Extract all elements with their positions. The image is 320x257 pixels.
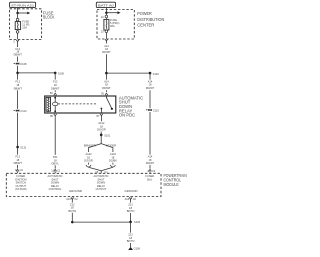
wire label F12 18 DB/WT (fuse block output): [14, 47, 23, 57]
svg-text:(ST-RUN): (ST-RUN): [15, 187, 27, 191]
svg-text:OUTPUT: OUTPUT: [96, 187, 107, 191]
svg-text:RD/WT: RD/WT: [102, 50, 111, 54]
pin 85 exit from relay: [50, 113, 56, 118]
pin 2 entry to PCM C2: [147, 165, 156, 173]
svg-text:C2: C2: [74, 197, 78, 201]
svg-text:DB/YL: DB/YL: [51, 161, 59, 165]
wire label Z12 18 BK/TN (left ground): [68, 202, 76, 212]
node junction at fuse block feed: [16, 12, 19, 15]
powertrain control module label: [164, 173, 187, 187]
wire S101 down to split: [100, 135, 102, 144]
wire S106 to ground: [130, 222, 132, 233]
svg-text:S120: S120: [153, 72, 160, 76]
connector arc left branch: [86, 163, 91, 167]
connector C108: [14, 62, 27, 66]
power distribution center dashed enclosure: [97, 10, 134, 40]
wire to PDC edge: [105, 33, 107, 39]
splice S131: [16, 145, 27, 149]
svg-text:A14: A14: [104, 79, 109, 83]
svg-text:S106: S106: [134, 220, 141, 224]
wire label F12 18 DB/WT (left branch): [14, 73, 23, 91]
svg-text:S101: S101: [104, 133, 111, 137]
svg-text:DB/WT: DB/WT: [14, 52, 23, 56]
wire label Z12 18 BK/TN (to ground): [127, 233, 135, 243]
wire relay 85 to PCM: [54, 117, 56, 154]
svg-text:C110: C110: [153, 108, 160, 112]
node ST-RUN A21 feed box: [10, 2, 36, 7]
svg-text:RD/WT: RD/WT: [146, 161, 155, 165]
relay switch contacts: [101, 96, 114, 113]
wire S120 down right column: [149, 73, 151, 80]
svg-text:30A: 30A: [110, 24, 115, 28]
wire label A14 18 RD/WT (PDC output): [102, 44, 111, 54]
svg-text:A16: A16: [125, 197, 130, 201]
fuse block dashed enclosure: [10, 9, 42, 40]
ground G106: [128, 247, 140, 251]
fuse 11 value label: [22, 20, 29, 30]
wire relay 87 to S101: [100, 117, 102, 121]
wire C110 to PCM: [149, 112, 151, 155]
wire from ST-RUN A21 to fuse 11: [17, 8, 19, 13]
svg-text:RD/WT: RD/WT: [146, 86, 155, 90]
relay coil: [46, 97, 50, 112]
wire label A142 18 DG/BK (right branch): [109, 148, 117, 162]
svg-text:BRN/GER: BRN/GER: [84, 144, 96, 148]
svg-text:B(+): B(+): [147, 177, 152, 181]
svg-text:CENTER: CENTER: [137, 23, 154, 28]
svg-text:ST-RUN A21: ST-RUN A21: [11, 4, 35, 8]
svg-text:DB/WT: DB/WT: [14, 161, 23, 165]
svg-text:DG/OR: DG/OR: [97, 127, 106, 131]
svg-text:MODULE: MODULE: [164, 182, 179, 187]
wire fuse top stub: [17, 20, 19, 23]
node BATT A0 feed box: [96, 2, 115, 7]
svg-text:BATT A0: BATT A0: [98, 4, 115, 8]
svg-text:C2: C2: [133, 197, 137, 201]
fuse F5 body: [104, 18, 109, 30]
wire from BATT A0: [105, 8, 107, 13]
node junction left: [16, 72, 19, 75]
wire label A14 18 RD/WT (right column): [146, 79, 155, 90]
wire label K51 18 DB/YL: [51, 155, 59, 165]
splice S100: [54, 72, 65, 76]
wire C108 to splice S100: [17, 66, 19, 73]
svg-text:A14: A14: [148, 79, 153, 83]
splice S106: [129, 220, 140, 224]
wire link to S100: [18, 72, 56, 74]
wire split to branches: [89, 144, 102, 149]
svg-text:DISTRIBUTION: DISTRIBUTION: [137, 17, 164, 22]
wire label Z12 18 BK/TN (right ground): [127, 203, 135, 213]
splice S120: [149, 72, 160, 76]
relay K1 automatic shut down relay box: [45, 96, 116, 113]
wire col1 down from S100 junction: [17, 90, 19, 109]
node junction at PDC feed: [105, 11, 108, 14]
svg-text:C1: C1: [57, 169, 61, 173]
connector C113: [14, 109, 27, 113]
svg-text:C2: C2: [152, 169, 156, 173]
power distribution center label: [137, 11, 164, 28]
svg-text:WT/GER: WT/GER: [106, 144, 117, 148]
PCM terminal label: fused B(+): [145, 174, 154, 181]
connector C110: [146, 108, 159, 112]
terminal circle pin 14: [101, 15, 108, 19]
PCM terminal label: fused ignition switch output: [15, 174, 27, 191]
pin 9 entry to PCM C2 (col1): [15, 165, 24, 173]
wire left ground down and to splice: [71, 213, 73, 222]
svg-text:ON PDC: ON PDC: [119, 113, 135, 118]
wire label A142 18 DG/OR (left branch): [84, 148, 93, 162]
svg-text:BK/TN: BK/TN: [68, 209, 76, 213]
pin exit terminal at fuse block: [13, 39, 19, 43]
wire to fuse 5: [105, 13, 107, 16]
relay actuation dashed link: [58, 103, 97, 105]
wire feed arrow to other circuits: [18, 12, 31, 15]
wire label A14 18 RD/WT (to relay 30): [102, 73, 111, 90]
svg-text:DB/WT: DB/WT: [51, 86, 60, 90]
svg-text:CONTROL: CONTROL: [49, 187, 62, 191]
svg-text:C2: C2: [20, 168, 24, 172]
svg-text:BLOCK: BLOCK: [43, 15, 55, 20]
svg-text:DG/BK: DG/BK: [109, 159, 117, 163]
wire to splice S106: [130, 213, 132, 222]
svg-text:C108: C108: [20, 62, 27, 66]
svg-text:POWER: POWER: [137, 11, 152, 16]
PCM terminal label: automatic shut down relay output: [93, 174, 108, 191]
node junction at relay feed: [105, 72, 108, 75]
connector arc right branch: [111, 163, 116, 167]
relay label: [119, 95, 143, 117]
svg-text:BK/TN: BK/TN: [127, 209, 135, 213]
pin A16 ground exit left: [66, 197, 78, 203]
pin 86 entry to relay: [50, 90, 57, 96]
wire dot to fuse terminal: [17, 13, 19, 18]
wire label F12 18 DB/WT (to PCM): [14, 155, 23, 165]
pin A16 ground exit right: [125, 197, 137, 203]
terminal circle (fuse 11 top): [16, 18, 19, 21]
svg-text:DG/OR: DG/OR: [84, 159, 93, 163]
fuse 5 value label: [110, 18, 120, 28]
wire label A14 18 RD/WT (to PCM): [146, 155, 155, 165]
svg-text:DB/WT: DB/WT: [14, 86, 23, 90]
terminal circle pin 13: [101, 30, 108, 34]
wire link to S120: [106, 72, 150, 74]
powertrain control module dashed enclosure: [6, 173, 161, 196]
svg-text:A16: A16: [66, 197, 71, 201]
svg-text:RD/WT: RD/WT: [102, 86, 111, 90]
svg-text:C113: C113: [20, 109, 27, 113]
svg-text:GROUND: GROUND: [125, 189, 138, 193]
wire merge into PCM pin: [89, 167, 113, 174]
pin 87 exit from relay: [97, 113, 103, 118]
wire down to splice line: [105, 54, 107, 73]
svg-text:S100: S100: [58, 72, 65, 76]
pin exit terminal at PDC: [105, 39, 108, 43]
PCM terminal label: automatic shut down relay control: [47, 174, 62, 191]
svg-text:10A: 10A: [22, 25, 27, 29]
wire label F12 18 DB/WT (to relay coil): [51, 73, 60, 91]
fuse F11 body: [15, 22, 20, 30]
splice S101: [100, 133, 111, 137]
wire down to C108: [17, 43, 19, 47]
relay armature wire: [53, 96, 58, 113]
svg-text:G106: G106: [134, 247, 141, 251]
svg-text:GROUND: GROUND: [69, 189, 82, 193]
terminal circle (fuse 11 bottom): [16, 31, 19, 34]
wire fuse to fuse block edge: [17, 33, 19, 39]
pin 30 entry to relay: [101, 90, 108, 96]
wire ground link: [72, 221, 130, 223]
wire feed arrow to other circuits: [106, 11, 120, 14]
pin 11 entry to PCM C1: [51, 165, 61, 173]
wire label A142 18 DG/OR: [97, 121, 106, 131]
svg-text:S131: S131: [20, 145, 27, 149]
svg-text:BK/TN: BK/TN: [127, 239, 135, 243]
